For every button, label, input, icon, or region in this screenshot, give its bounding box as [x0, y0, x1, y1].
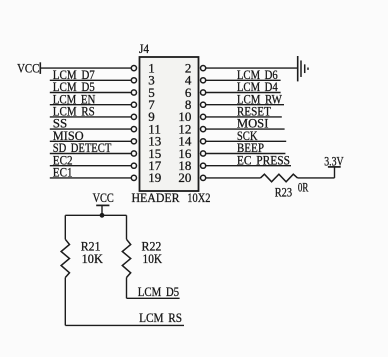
svg-text:10K: 10K: [143, 251, 163, 266]
svg-text:EC1: EC1: [53, 165, 73, 180]
svg-text:EC PRESS: EC PRESS: [237, 152, 290, 167]
svg-text:0R: 0R: [298, 180, 309, 195]
svg-text:3.3V: 3.3V: [324, 153, 344, 168]
svg-text:10X2: 10X2: [187, 190, 210, 205]
svg-text:20: 20: [178, 170, 191, 185]
svg-text:J4: J4: [139, 41, 150, 56]
svg-text:10K: 10K: [82, 251, 104, 266]
svg-text:VCC: VCC: [93, 190, 114, 205]
svg-text:LCM D5: LCM D5: [138, 284, 179, 299]
svg-text:HEADER: HEADER: [132, 190, 180, 205]
svg-text:R23: R23: [275, 184, 292, 199]
svg-text:VCC: VCC: [17, 60, 39, 75]
svg-text:19: 19: [148, 170, 161, 185]
svg-text:LCM RS: LCM RS: [139, 310, 182, 325]
